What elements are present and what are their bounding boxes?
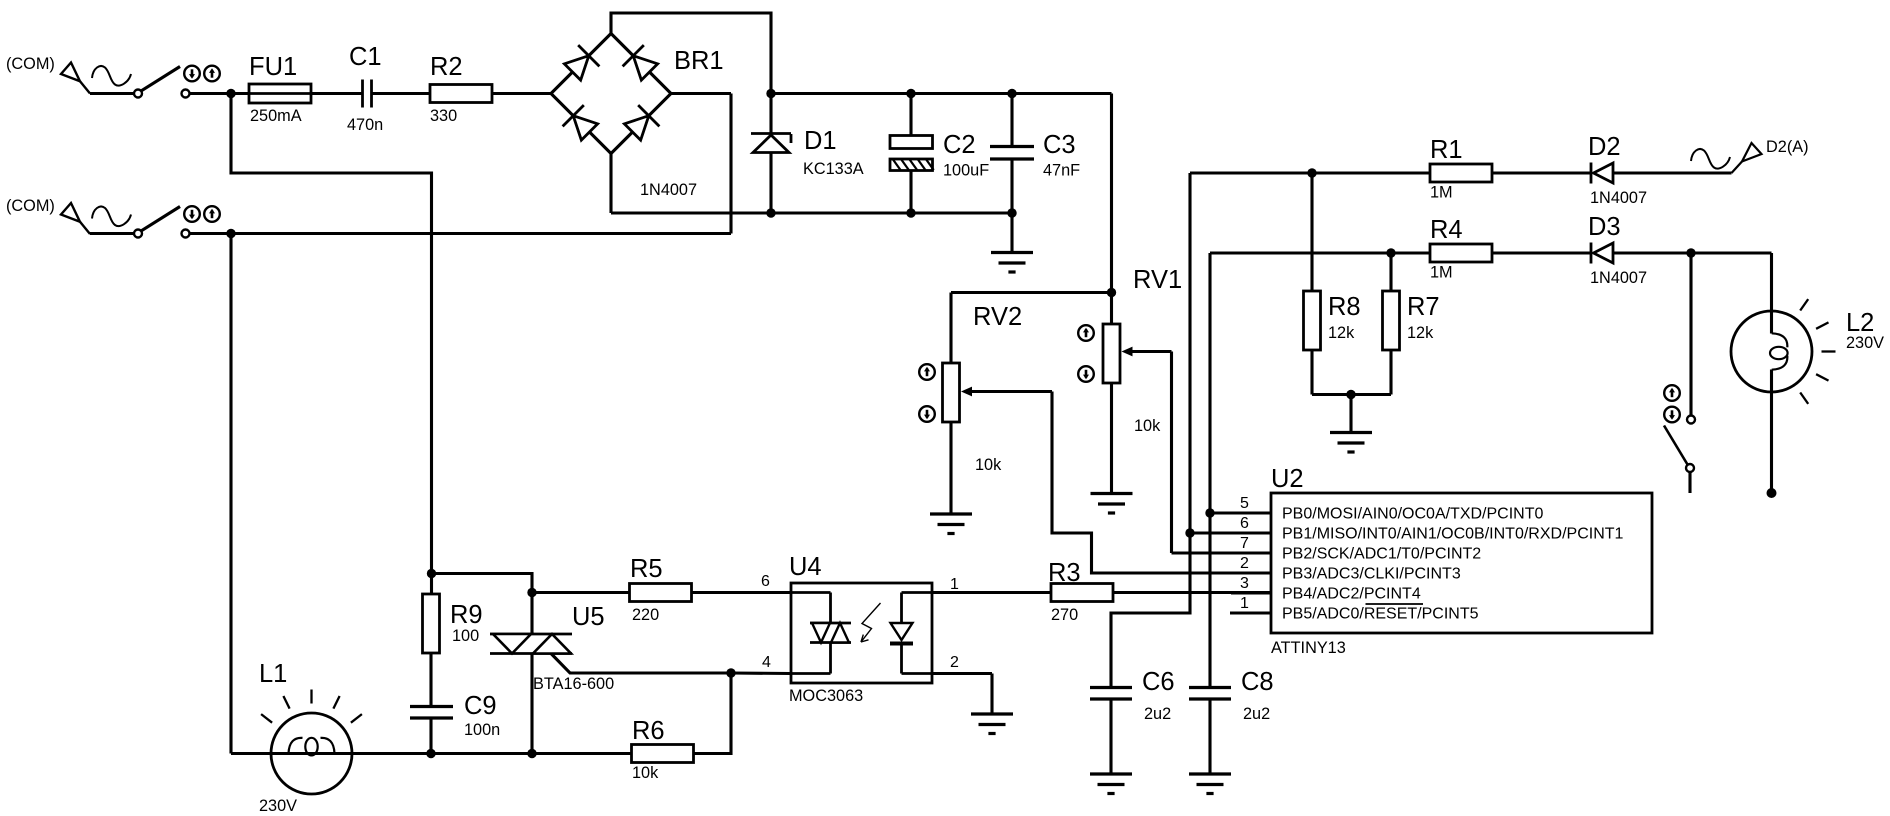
svg-text:47nF: 47nF (1043, 162, 1080, 180)
terminal arrow COM1 (61, 63, 90, 94)
switch SW2 (COM2) (134, 207, 190, 238)
circled down-arrow marker SW1 (184, 66, 200, 82)
node gate / R6 / U4 pin 4 (726, 668, 735, 677)
resistor R7 12k (1383, 253, 1440, 395)
svg-text:2: 2 (1240, 555, 1249, 572)
wire R5 to U4 pin 6 (692, 591, 792, 594)
svg-text:PB2/SCK/ADC1/T0/PCINT2: PB2/SCK/ADC1/T0/PCINT2 (1282, 546, 1481, 563)
svg-text:1: 1 (950, 576, 959, 593)
svg-text:R8: R8 (1328, 293, 1361, 321)
AC sine symbol COM2 (92, 207, 131, 226)
resistor R1 1M (1430, 136, 1492, 202)
circled up-arrow RV2 (919, 364, 935, 380)
svg-text:2u2: 2u2 (1144, 705, 1171, 723)
wire bridge AC2 horizontal (671, 92, 731, 95)
wire U4 pin1 to R3 (932, 591, 1051, 594)
svg-text:5: 5 (1240, 495, 1249, 512)
svg-text:R5: R5 (630, 555, 663, 583)
svg-text:BR1: BR1 (674, 47, 724, 75)
resistor R2 330 (430, 53, 492, 125)
svg-text:10k: 10k (632, 764, 659, 782)
terminal label (COM) bottom (6, 197, 55, 215)
wire DC plus rail (771, 92, 1112, 95)
svg-text:(COM): (COM) (6, 197, 55, 215)
resistor R4 1M (1430, 216, 1492, 282)
wire bridge AC2 vertical (729, 94, 732, 234)
resistor R6 10k (632, 717, 694, 782)
circled down-arrow switch L2 (1664, 407, 1680, 423)
node R8 R7 ground (1346, 390, 1355, 399)
node D1 anode on minus rail (766, 208, 775, 217)
svg-text:R9: R9 (450, 601, 483, 629)
svg-text:BTA16-600: BTA16-600 (533, 675, 614, 693)
resistor R5 220 (630, 555, 692, 624)
svg-text:230V: 230V (259, 797, 297, 815)
svg-text:100n: 100n (464, 721, 500, 739)
svg-text:270: 270 (1051, 606, 1078, 624)
ground at C6 (1090, 774, 1132, 794)
ground at C3 (991, 213, 1033, 272)
svg-text:(COM): (COM) (6, 55, 55, 73)
svg-text:R2: R2 (430, 53, 463, 81)
wire RV1 wiper to pin 7 (1172, 551, 1232, 554)
svg-text:PB3/ADC3/CLKI/PCINT3: PB3/ADC3/CLKI/PCINT3 (1282, 566, 1461, 583)
lamp L2 230V (1731, 253, 1884, 489)
svg-text:D1: D1 (804, 127, 837, 155)
resistor R8 12k (1304, 173, 1361, 395)
circled up-arrow switch L2 (1664, 385, 1680, 401)
svg-text:220: 220 (632, 606, 659, 624)
svg-text:100uF: 100uF (943, 162, 989, 180)
wire R6 to gate node (694, 673, 732, 754)
node DC plus at D1 (766, 89, 775, 98)
svg-text:RV1: RV1 (1133, 266, 1182, 294)
svg-text:6: 6 (1240, 515, 1249, 532)
U2 pin 3 PB4 (1231, 575, 1421, 603)
svg-text:R3: R3 (1048, 559, 1081, 587)
node C2 bottom on minus rail (906, 208, 915, 217)
switch SW1 (COM1) (134, 67, 190, 98)
node R5 branch (527, 588, 536, 597)
svg-text:L2: L2 (1846, 309, 1874, 337)
svg-text:D3: D3 (1588, 213, 1621, 241)
node PB1 pin 6 (1185, 528, 1194, 537)
resistor R3 270 (1048, 559, 1113, 624)
ground at R7/R8 (1330, 395, 1372, 453)
wire live jog down to R9 branch (231, 94, 432, 595)
wire pin5 node to R4 (1210, 251, 1430, 254)
svg-text:1N4007: 1N4007 (1590, 189, 1647, 207)
svg-text:250mA: 250mA (250, 107, 302, 125)
svg-text:R6: R6 (632, 717, 665, 745)
optocoupler U4 MOC3063 (789, 553, 932, 705)
wire R2 to bridge (492, 92, 551, 95)
potentiometer RV2 10k (943, 293, 1053, 514)
svg-text:R1: R1 (1430, 136, 1463, 164)
svg-text:D2: D2 (1588, 133, 1621, 161)
wire C1 to R2 (372, 92, 431, 95)
svg-text:L1: L1 (259, 660, 287, 688)
bridge rectifier BR1 1N4007 (551, 34, 724, 200)
circled up-arrow marker SW1 (204, 66, 220, 82)
capacitor C1 470n (347, 43, 383, 134)
svg-text:C2: C2 (943, 131, 976, 159)
wire U5 gate to node (551, 654, 731, 674)
node C3 top on plus rail (1007, 89, 1016, 98)
svg-text:C1: C1 (349, 43, 382, 71)
svg-text:C9: C9 (464, 692, 497, 720)
ground at C8 (1189, 774, 1231, 794)
wire neutral rail to R6 (231, 752, 632, 755)
wire RV2 wiper to U2 pin 2 (1052, 392, 1271, 574)
node switch branch (1686, 248, 1695, 257)
svg-text:1M: 1M (1430, 184, 1453, 202)
capacitor C6 2u2 (1090, 668, 1175, 774)
svg-text:PB0/MOSI/AIN0/OC0A/TXD/PCINT0: PB0/MOSI/AIN0/OC0A/TXD/PCINT0 (1282, 506, 1544, 523)
wire COM2 to bridge AC2 (189, 232, 731, 235)
svg-text:U5: U5 (572, 603, 605, 631)
svg-text:10k: 10k (975, 456, 1002, 474)
wire COM1 terminal to switch (90, 92, 135, 95)
U4 light arrow (861, 603, 881, 642)
U2 pin 1 PB5 (1230, 595, 1479, 623)
svg-text:330: 330 (430, 107, 457, 125)
svg-text:PB4/ADC2/PCINT4: PB4/ADC2/PCINT4 (1282, 586, 1421, 603)
zener diode D1 KC133A (751, 94, 864, 214)
ground at U4 pin 2 (932, 674, 1013, 734)
wire node to U4 pin 4 (731, 671, 791, 675)
wire bridge + output loop (611, 13, 771, 94)
svg-text:C6: C6 (1142, 668, 1175, 696)
svg-text:C8: C8 (1241, 668, 1274, 696)
svg-text:C3: C3 (1043, 131, 1076, 159)
svg-text:PB5/ADC0/RESET/PCINT5: PB5/ADC0/RESET/PCINT5 (1282, 606, 1479, 623)
svg-text:12k: 12k (1328, 324, 1355, 342)
wire R9 branch to U5 (432, 574, 533, 635)
node C9 bottom on rail (426, 749, 435, 758)
wire PB1 net down to C6 (1111, 173, 1190, 687)
IC U2 ATTINY13 (1271, 465, 1652, 657)
svg-text:PB1/MISO/INT0/AIN1/OC0B/INT0/R: PB1/MISO/INT0/AIN1/OC0B/INT0/RXD/PCINT1 (1282, 526, 1624, 543)
svg-text:D2(A): D2(A) (1766, 138, 1809, 156)
svg-text:1M: 1M (1430, 264, 1453, 282)
svg-text:1N4007: 1N4007 (1590, 269, 1647, 287)
circled down-arrow RV1 (1078, 366, 1094, 382)
capacitor C8 2u2 (1189, 668, 1274, 774)
svg-text:FU1: FU1 (249, 53, 297, 81)
svg-text:U4: U4 (789, 553, 822, 581)
wire R3 to U2 pin 3 (1113, 591, 1271, 594)
terminal dot L2 bottom (1767, 488, 1777, 498)
wire switch to fuse (189, 92, 249, 95)
terminal label (COM) top (6, 55, 55, 73)
svg-text:230V: 230V (1846, 334, 1884, 352)
wire R4 to D3 (1492, 251, 1591, 254)
wire RV2 top to RV1 node (951, 291, 1112, 294)
rays of lamp L1 (261, 690, 362, 723)
node R8 top (1307, 168, 1316, 177)
node R9 top branch (427, 569, 436, 578)
wire R1 to D2 (1492, 171, 1591, 174)
capacitor C3 47nF (990, 94, 1080, 214)
svg-text:12k: 12k (1407, 324, 1434, 342)
U2 pin 5 PB0 (1210, 495, 1544, 523)
ground at RV1 (1091, 494, 1133, 514)
capacitor C2 100uF (890, 94, 989, 214)
AC sine symbol COM1 (92, 66, 131, 85)
svg-text:U2: U2 (1271, 465, 1304, 493)
wire D2 to terminal (1613, 171, 1732, 174)
ground at RV2 (930, 514, 972, 534)
wire D3 to L2 (1613, 251, 1772, 254)
wire PB0 net down to C8 (1208, 253, 1211, 687)
circled down-arrow RV2 (919, 406, 935, 422)
capacitor C9 100n (410, 692, 500, 754)
svg-text:R7: R7 (1407, 293, 1440, 321)
node neutral input (226, 229, 235, 238)
svg-text:470n: 470n (347, 116, 383, 134)
rays of lamp L2 (1800, 299, 1835, 404)
U4 internal LED (890, 593, 932, 674)
wire DC minus rail (611, 211, 1012, 214)
U2 pin 2 PB3 (1231, 555, 1461, 583)
wire neutral down to L1 rail (229, 234, 232, 754)
wire R8-R7 join (1312, 393, 1391, 396)
wire pin6 node to R1 (1190, 171, 1430, 174)
node R7 top (1386, 248, 1395, 257)
circled down-arrow marker SW2 (184, 206, 200, 222)
svg-text:MOC3063: MOC3063 (789, 687, 863, 705)
svg-text:7: 7 (1240, 535, 1249, 552)
svg-text:1: 1 (1240, 595, 1249, 612)
svg-text:100: 100 (452, 627, 479, 645)
circled up-arrow RV1 (1078, 325, 1094, 341)
svg-text:6: 6 (761, 573, 770, 590)
U2 pin 6 PB1 (1190, 515, 1624, 543)
diode D3 1N4007 (1588, 213, 1647, 287)
node live input (226, 89, 235, 98)
resistor R9 100 (423, 594, 483, 707)
svg-text:ATTINY13: ATTINY13 (1271, 639, 1346, 657)
potentiometer RV1 10k (1103, 94, 1182, 494)
wire U5 top to R5 (532, 591, 630, 594)
svg-text:4: 4 (762, 654, 771, 671)
node C3 bottom (1007, 208, 1016, 217)
node C2 top on plus rail (906, 89, 915, 98)
terminal arrow COM2 (61, 203, 90, 234)
svg-text:10k: 10k (1134, 417, 1161, 435)
fuse FU1 250mA (249, 53, 311, 125)
wire bridge minus down (609, 154, 612, 214)
svg-text:R4: R4 (1430, 216, 1463, 244)
svg-text:2: 2 (950, 654, 959, 671)
svg-text:KC133A: KC133A (803, 160, 864, 178)
wire RV1 wiper down to pin 7 (1170, 352, 1173, 554)
U2 pin 7 PB2 (1231, 535, 1481, 563)
diode D2 1N4007 (1588, 133, 1647, 207)
terminal D2(A) (1691, 138, 1809, 173)
wire COM2 terminal to switch (90, 232, 135, 235)
wire FU1 to C1 (311, 92, 362, 95)
node U5 bottom on rail (527, 749, 536, 758)
svg-text:3: 3 (1240, 575, 1249, 592)
circled up-arrow marker SW2 (204, 206, 220, 222)
switch at L2 branch (1664, 253, 1695, 493)
svg-text:RV2: RV2 (973, 303, 1022, 331)
lamp L1 230V (259, 660, 352, 815)
svg-text:2u2: 2u2 (1243, 705, 1270, 723)
U4 internal photo-triac (791, 593, 851, 674)
triac U5 BTA16-600 (490, 603, 614, 754)
svg-text:1N4007: 1N4007 (640, 181, 697, 199)
node RV1 top / RV2 branch (1107, 288, 1116, 297)
node PB0 pin 5 (1205, 508, 1214, 517)
U4 pin numbers (761, 573, 959, 671)
